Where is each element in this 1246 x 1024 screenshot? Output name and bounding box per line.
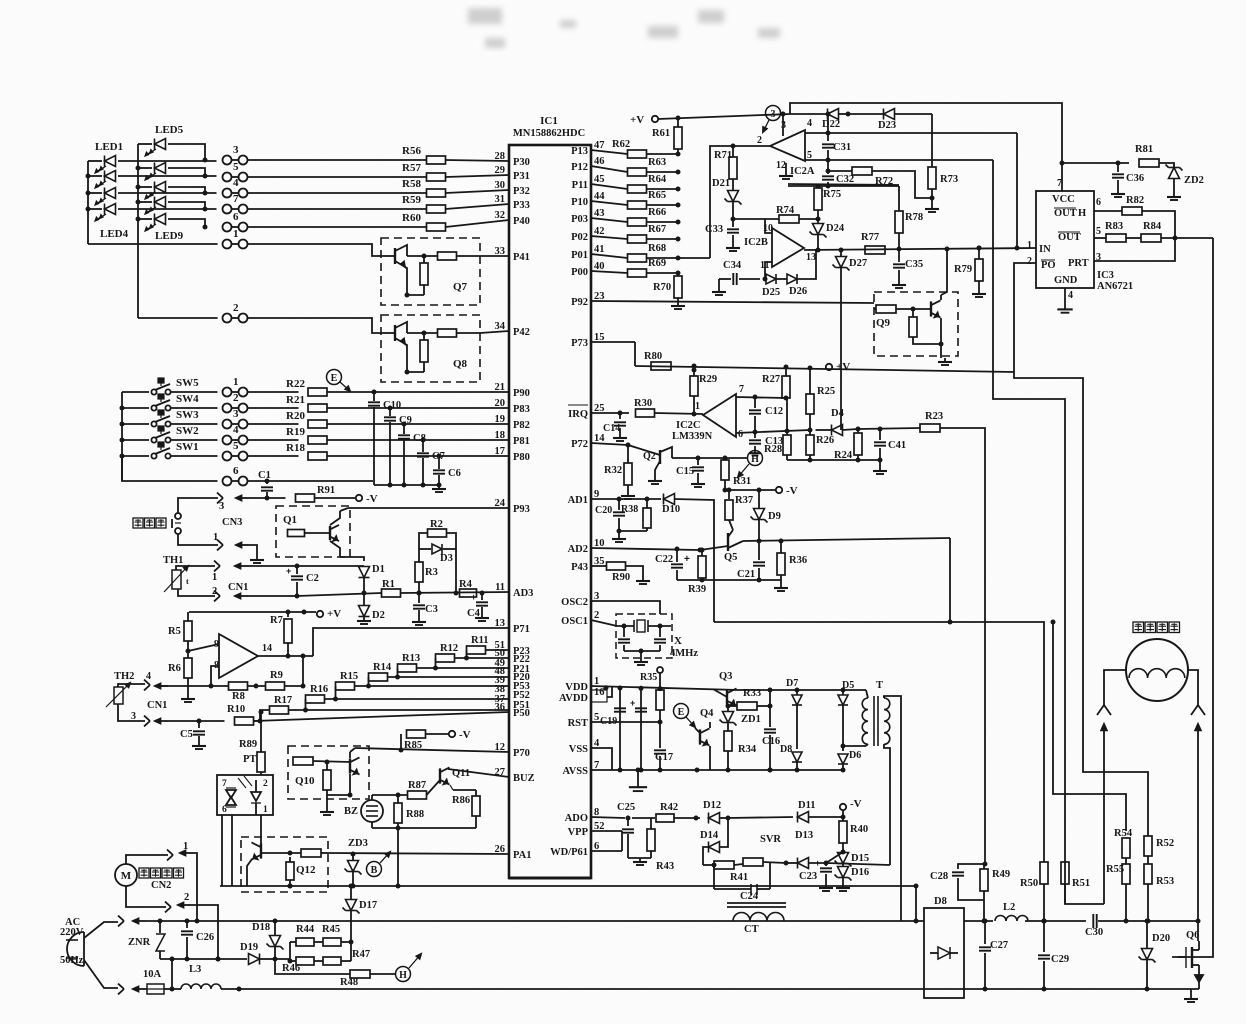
wire AVDD stub — [607, 687, 612, 697]
IC1 pin 20 P83 — [495, 398, 530, 415]
resistor R37 — [725, 488, 753, 531]
resistor R52 — [1144, 830, 1174, 864]
optocoupler PT box — [217, 775, 273, 815]
IC1 pin 24 P93 — [495, 498, 530, 515]
diode D1 — [359, 564, 385, 593]
wire CN2-1 right and down — [193, 853, 197, 921]
transistor Q9 dashed block — [874, 292, 958, 356]
wire TH1 top row CN1-1 — [176, 566, 215, 570]
diode D26 — [776, 250, 816, 297]
fuse 10A — [143, 969, 164, 994]
ground AVSS — [637, 770, 639, 782]
wire pair to R19 — [248, 439, 299, 441]
wire PO pin down — [1014, 263, 1036, 372]
diode D18 — [252, 919, 284, 960]
wire D13 row to transformer — [826, 863, 890, 865]
wire AC bottom lead — [84, 960, 118, 988]
resistor R4 — [459, 579, 477, 597]
inductor L3 — [172, 964, 239, 989]
resistor R74 — [733, 205, 821, 223]
resistor R7 — [270, 612, 292, 656]
capacitor C4 — [467, 591, 489, 622]
ground bus Q5 — [780, 580, 782, 584]
transistor Q10 dashed block — [288, 746, 369, 799]
wire pin11 stub — [765, 262, 772, 279]
wire Q12 row to PA1 — [328, 853, 509, 854]
resistor R3 — [415, 549, 438, 593]
wire +V row mid — [635, 366, 1014, 372]
wire CN1-2 row to R1 — [297, 593, 382, 596]
wire R57 to IC1 — [446, 175, 510, 177]
resistor R64 — [591, 174, 681, 193]
connector pair 6 — [223, 223, 232, 232]
wire P73 row — [591, 341, 635, 343]
wire R87 left — [372, 794, 408, 796]
wire CN1-1 row to D1 — [297, 565, 364, 567]
transistor Q1 dashed block — [276, 506, 350, 557]
capacitor C14 — [603, 413, 627, 441]
resistor R67 — [591, 224, 681, 243]
resistor R20 — [286, 410, 327, 428]
connector pair 3 — [223, 156, 232, 165]
IC1 pin 12 P70 — [495, 742, 530, 759]
LED LED3 — [88, 188, 217, 205]
resistor R44 — [290, 924, 315, 946]
wire C20 R38 bus and ground — [619, 530, 647, 532]
transistor Q7 dashed block — [381, 238, 480, 305]
capacitor C34 — [712, 260, 760, 295]
IC1 pin 7 AVSS — [563, 760, 600, 777]
wire ADO row to D11 — [728, 817, 793, 818]
wire R57 row — [248, 176, 427, 178]
op-amp IC2C — [672, 384, 744, 442]
resistor R31 — [721, 458, 751, 493]
resistor R17 — [270, 695, 510, 714]
resistor R18 — [286, 442, 327, 460]
ground R6 — [187, 695, 189, 699]
LED LED9 — [138, 214, 208, 231]
IC1 pin 14 P72 — [571, 433, 605, 450]
resistor R6 — [168, 641, 192, 695]
resistor R32 — [604, 445, 635, 499]
capacitor C13 — [749, 432, 783, 456]
resistor R70 — [653, 273, 685, 309]
IC1 pin 41 P01 — [571, 244, 604, 261]
ground R73 — [931, 205, 933, 209]
connector pair 3 — [223, 420, 232, 429]
wire opamp in+ to R5/R6 node — [188, 644, 219, 651]
zener D21 — [712, 178, 742, 222]
IC1 pin 27 BUZ — [495, 767, 535, 784]
zener D9 — [751, 490, 781, 544]
resistor R75 — [814, 184, 841, 220]
connector pair 5 — [223, 173, 232, 182]
capacitor C2 — [286, 566, 319, 599]
coil left arrow — [1101, 724, 1107, 904]
IC1 pin 16 AVDD — [559, 687, 604, 704]
resistor R56 — [402, 145, 445, 164]
wire RST row — [591, 721, 660, 723]
resistor R2 — [428, 519, 447, 537]
resistor R89 — [239, 710, 265, 773]
LED LED6 — [138, 163, 208, 180]
AC plug — [60, 917, 84, 966]
wire pair to R20 — [248, 423, 299, 425]
LED LED1 — [88, 156, 217, 173]
ground comparator bus — [879, 460, 881, 467]
capacitor C32 — [822, 160, 854, 186]
resistor R42 — [632, 802, 700, 822]
resistor R46 — [282, 957, 314, 974]
wire Q5 row corner down — [949, 538, 951, 622]
IC1 pin 40 P00 — [571, 261, 604, 278]
coil left chevron — [1097, 705, 1111, 715]
resistor R35 — [640, 667, 664, 725]
resistor R26 — [806, 430, 834, 460]
wire R10 row to IC P50 — [254, 712, 510, 721]
resistor R61 — [652, 118, 682, 154]
op-amp IC2B — [744, 223, 816, 271]
wire P92 column down — [957, 302, 959, 304]
wire coil right lead — [1188, 670, 1198, 705]
connector pair 1 — [223, 388, 232, 397]
zener ZD3 — [345, 838, 368, 886]
diode D5 — [838, 680, 854, 751]
IC1 pin 51 P23 — [495, 640, 530, 657]
wire pin7 row — [736, 397, 786, 398]
wire pin5 elbow to R51 column — [993, 160, 1065, 862]
wire R59 to IC1 — [446, 204, 510, 209]
IC1 pin 1 VDD — [565, 676, 599, 693]
node H circle bottom — [396, 954, 422, 982]
resistor R58 — [402, 178, 445, 197]
thermistor TH2 — [106, 671, 134, 707]
resistor R39 — [688, 548, 706, 596]
wire R59 row — [248, 208, 427, 210]
wire PT pin2 top — [260, 772, 262, 775]
heating coil label — [1133, 622, 1144, 633]
ground cap bus — [438, 485, 440, 489]
resistor R53 — [1144, 864, 1174, 921]
IC U IC1 MN158862HDC main microcontroller — [509, 115, 591, 878]
wire PRT row — [1094, 238, 1175, 261]
IC1 pin 35 P43 — [571, 556, 604, 573]
terminal -V R85 — [449, 729, 471, 741]
capacitor C9 — [384, 406, 412, 486]
resistor R5 — [168, 612, 192, 641]
wire R88 bus down — [397, 828, 399, 886]
resistor R51 — [1061, 862, 1090, 904]
wire VDD diode row — [738, 689, 866, 691]
IC1 pin 28 P30 — [495, 151, 530, 168]
wire OSC2 row — [591, 601, 660, 614]
IC1 pin 26 PA1 — [495, 844, 532, 861]
resistor R34 — [724, 730, 757, 770]
terminal +V left — [317, 608, 341, 620]
wire R75 R78 top row — [788, 184, 899, 185]
diode D7 — [786, 678, 802, 749]
resistor R10 — [227, 704, 254, 725]
terminal -V bottom — [840, 798, 862, 817]
IC1 pin 5 RST — [568, 712, 600, 729]
IC1 pin 13 P71 — [495, 618, 530, 635]
resistor R43 — [647, 818, 674, 872]
IC1 pin 39 P53 — [495, 675, 530, 692]
resistor R69 — [591, 258, 681, 277]
resistor R45 — [314, 924, 351, 946]
wire VPP WD — [591, 830, 622, 832]
connector pair 4 — [223, 436, 232, 445]
capacitor C5 — [180, 719, 206, 750]
wire R56 row — [248, 159, 427, 161]
wire CN3 bottom row — [178, 534, 218, 545]
wire pin6 row — [736, 430, 810, 433]
resistor R14 — [369, 662, 510, 681]
inductor L2 — [995, 902, 1086, 921]
diode D12 — [703, 800, 731, 824]
wire VDD row — [591, 686, 738, 690]
wire R28 R26 bottom bus — [787, 459, 880, 461]
capacitor C10 — [368, 390, 401, 486]
wire Q9 collector to IN row — [941, 249, 947, 295]
resistor R84 — [1126, 221, 1213, 242]
diode D25 — [762, 274, 780, 298]
IC1 pin 50 P22 — [495, 648, 530, 665]
resistor R9 — [248, 670, 285, 690]
capacitor C35 — [892, 249, 923, 288]
wire D10 line to R50 top — [714, 622, 1044, 862]
resistor R27 — [762, 367, 790, 401]
wire R56 to IC1 — [446, 160, 510, 161]
wire VSS stub — [591, 748, 612, 770]
resistor R87 — [408, 780, 441, 799]
ground WD row — [627, 851, 629, 858]
connector pair 1 — [223, 240, 232, 249]
capacitor C16 — [762, 690, 780, 773]
wire VCC R81 row — [1062, 162, 1129, 164]
cap bus — [374, 484, 439, 486]
zener D16 — [835, 864, 870, 891]
capacitor C30 series — [1085, 914, 1103, 938]
resistor R66 — [591, 207, 681, 226]
buzzer BZ — [344, 795, 383, 828]
IC1 pin 2 OSC1 — [561, 610, 599, 627]
capacitor C3 — [412, 591, 438, 626]
capacitor C12 — [749, 397, 783, 431]
ground Q6 — [1190, 995, 1192, 999]
resistor R38 — [621, 499, 651, 531]
resistor R54 — [1114, 828, 1133, 864]
resistor R77 — [861, 232, 885, 254]
wire PO elbow to R52 column — [1014, 372, 1148, 830]
node E circle near Q7 — [327, 370, 342, 385]
wires PT left pins down — [221, 815, 223, 886]
wire -V row mid — [725, 489, 775, 491]
wire Q1 emitter row to D1 — [340, 557, 364, 561]
wire pair to R21 — [248, 407, 299, 409]
transistor Q5 — [700, 530, 743, 563]
wires R2 D3 parallel — [419, 533, 428, 549]
ground IC3 pin4 — [1064, 288, 1066, 305]
resistor R88 — [394, 795, 424, 828]
resistor R24 — [834, 429, 862, 461]
diode D22 — [790, 109, 851, 131]
wire AVSS row — [591, 769, 843, 771]
terminal -V near Q1 — [315, 493, 378, 505]
wire P93 to Q1 — [348, 507, 509, 509]
resistor R63 — [591, 157, 681, 176]
LED LED8 — [138, 197, 208, 214]
IC1 pin 6 WD/P61 — [550, 841, 599, 858]
wire R18 to IC1 — [327, 455, 509, 457]
resistor R22 — [286, 378, 327, 396]
wire R13 chain — [435, 658, 437, 668]
resistor R81 — [1135, 144, 1174, 167]
wire top rail — [790, 103, 1062, 191]
wire Q10 collector to P70 row — [350, 748, 355, 752]
IC1 pin 42 P02 — [571, 226, 604, 243]
diode D2 — [359, 593, 385, 621]
wire CN3 top row — [178, 498, 218, 513]
capacitor C17 — [654, 722, 673, 773]
wire IC2A pin5 row — [805, 159, 993, 161]
wire IC2A output — [733, 145, 770, 147]
resistor R86 — [452, 790, 480, 828]
IC1 pin 19 P82 — [495, 414, 530, 431]
IC1 pin 31 P33 — [495, 194, 530, 211]
resistor R1 — [382, 579, 401, 597]
IC1 pin 38 P52 — [495, 684, 530, 701]
IC1 pin 10 AD2 — [568, 538, 605, 555]
wire OSC1 row — [591, 620, 617, 626]
zener ZD2 — [1166, 165, 1204, 201]
wire R17 chain — [305, 699, 307, 710]
IC1 pin 48 P20 — [495, 666, 530, 683]
node E circle mid — [674, 704, 696, 728]
resistor R12 — [436, 643, 510, 662]
thermistor TH1 — [163, 555, 189, 592]
wire AC top lead — [84, 922, 118, 938]
resistor R71 — [714, 146, 737, 190]
wire AD1 row — [591, 498, 661, 500]
resistor R90 — [607, 562, 651, 584]
resistor R78 — [895, 186, 923, 249]
IC1 pin 23 P92 — [571, 291, 604, 308]
diode D13 — [786, 830, 843, 869]
resistor R91 — [267, 485, 335, 502]
node H circle mid — [738, 451, 763, 478]
ground Q9 — [940, 344, 942, 358]
LED column LED5-LED9 left bus — [137, 144, 139, 318]
connector CN1b bottom — [118, 704, 225, 726]
wire D18 node up to R44 row — [275, 942, 290, 959]
IC1 pin 37 P51 — [495, 694, 530, 711]
transistor Q2 — [628, 445, 672, 484]
wire row1 from LED bus to pair1 — [88, 243, 218, 245]
crystal X dashed box — [616, 614, 672, 658]
wire bus below Q5 — [677, 579, 781, 581]
wire R16 chain — [335, 686, 337, 699]
diode D24 — [810, 219, 845, 253]
wire bridge output row — [964, 920, 993, 922]
wire P71 branch to opamp output — [313, 628, 509, 656]
op-amp IC2A — [770, 118, 815, 177]
wire thermistor TH2 input — [160, 685, 211, 687]
motor M fan — [115, 864, 184, 891]
wire SW4 to pair — [171, 407, 218, 409]
resistor R28 — [764, 398, 791, 460]
wire R60 to IC1 — [446, 220, 510, 227]
switch SW4 — [122, 393, 199, 411]
connector pair 2 — [223, 314, 232, 323]
zener ZD1 — [720, 704, 761, 731]
terminal +V top — [630, 114, 658, 126]
wire SW1 to pair — [171, 455, 218, 457]
capacitor C22 — [655, 549, 690, 580]
resistor R11 — [467, 635, 510, 654]
wire pair to R18 — [248, 455, 299, 457]
wire P70 row — [355, 748, 509, 752]
capacitor C36 — [1111, 163, 1144, 197]
wire OUTH pin6 row — [1094, 210, 1122, 212]
LED LED7 — [138, 182, 208, 199]
ground D2 — [363, 617, 365, 621]
IC1 pin 52 VPP — [568, 821, 605, 838]
node B circle — [367, 852, 391, 877]
IC1 pin 4 VSS — [569, 738, 600, 755]
wire R58 row — [248, 192, 427, 194]
wire to R48 — [275, 959, 350, 974]
capacitor C28 — [930, 862, 988, 901]
IC1 pin 25 IRQ — [568, 403, 604, 420]
capacitor C25 — [617, 802, 635, 851]
wire R45 R47 right junction — [350, 942, 352, 961]
resistor R59 — [402, 194, 445, 213]
thermostat connector CN3 — [133, 501, 242, 534]
resistor R50 — [1020, 862, 1048, 924]
varistor ZNR — [128, 919, 165, 960]
wire row6 — [122, 456, 218, 481]
wire SW2 to pair — [171, 439, 218, 441]
wire Q8 output to IC1 — [480, 331, 509, 333]
wire pin3 stub — [782, 114, 784, 136]
wire R68 row extension — [678, 257, 710, 259]
capacitor C29 — [1038, 919, 1069, 992]
wire R23 to C28 R49 column — [940, 428, 985, 864]
ground crystal — [640, 651, 642, 658]
IC1 pin 17 P80 — [495, 446, 530, 463]
resistor R68 — [591, 243, 681, 262]
IC1 pin 45 P11 — [572, 174, 605, 191]
wire R51 elbow to coil arrow — [1065, 862, 1104, 904]
capacitor C31 — [822, 112, 851, 163]
resistor R72 — [826, 167, 933, 198]
wire +V to bus — [658, 114, 790, 119]
transistor Q11 — [440, 767, 470, 790]
diode D19 — [240, 942, 278, 965]
resistor R65 — [591, 190, 681, 209]
wire ADO row — [591, 817, 625, 818]
wire PT pin1 down to Q12 — [260, 815, 262, 842]
IC1 pin 30 P32 — [495, 180, 530, 197]
connector pair 2 — [223, 404, 232, 413]
IC1 pin 9 AD1 — [568, 489, 600, 506]
IC1 pin 47 P13 — [571, 140, 604, 157]
resistor R49 — [980, 864, 1010, 924]
transformer CT — [727, 903, 786, 935]
wire bus 886 — [220, 885, 916, 887]
connector pair 7 — [223, 205, 232, 214]
